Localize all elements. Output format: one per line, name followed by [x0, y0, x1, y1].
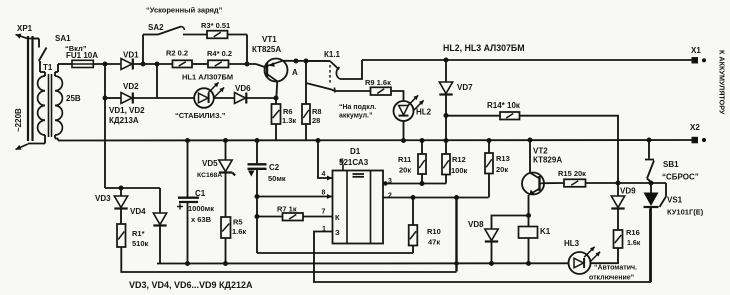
- diode VD3: [120, 188, 122, 196]
- svg-text:R2 0.2: R2 0.2: [166, 49, 188, 58]
- LED HL2: [394, 101, 414, 121]
- transformer T1 core: [48, 74, 50, 137]
- relay contact K1.1 upper blade: [306, 60, 330, 62]
- wire HL1 branch vertical: [156, 64, 158, 98]
- wire X2 bus: [58, 139, 693, 142]
- svg-text:20к: 20к: [399, 166, 411, 175]
- diode VD4: [159, 188, 161, 213]
- junction VD2 branch: [103, 96, 107, 100]
- wire VD8 branch: [492, 216, 529, 230]
- thyristor VS1: [650, 183, 652, 193]
- svg-text:100к: 100к: [451, 166, 468, 175]
- svg-text:“СТАБИЛИЗ.”: “СТАБИЛИЗ.”: [175, 111, 226, 120]
- resistor R15: [544, 182, 564, 184]
- wire primary return to plug: [28, 143, 45, 145]
- junction VD9 top: [616, 181, 620, 185]
- svg-text:R4* 0.2: R4* 0.2: [207, 49, 232, 58]
- diode VD8: [485, 229, 498, 241]
- wire VT1 collector down: [276, 81, 277, 98]
- resistor R2: [173, 60, 193, 67]
- capacitor C2: [256, 141, 258, 165]
- junction R5 bottom: [224, 262, 228, 266]
- IC D1 pin8 wire: [257, 196, 333, 198]
- wire to VD3 VD4: [105, 187, 160, 189]
- svg-text:~220В: ~220В: [14, 108, 23, 132]
- junction VD7 bottom bus: [444, 139, 448, 143]
- junction C2 top: [255, 139, 259, 143]
- fuse FU1: [72, 60, 93, 67]
- svg-text:З: З: [335, 228, 340, 237]
- relay coil K1: [519, 227, 538, 239]
- IC D1 body: [333, 171, 384, 244]
- svg-text:“Ускоренный заряд”: “Ускоренный заряд”: [146, 6, 223, 15]
- junction output column top: [455, 196, 459, 200]
- svg-text:VD1: VD1: [123, 51, 139, 60]
- junction R11 bottom: [420, 182, 424, 186]
- svg-text:R14* 10к: R14* 10к: [487, 101, 521, 110]
- svg-text:VD1, VD2: VD1, VD2: [109, 106, 145, 115]
- junction VT1 collector / R6 top: [274, 96, 278, 100]
- switch SA1: [33, 38, 40, 40]
- svg-text:х 63В: х 63В: [191, 215, 212, 224]
- junction fuse output: [103, 62, 107, 66]
- svg-text:R16: R16: [626, 228, 640, 237]
- transformer T1 secondary winding: [55, 76, 62, 91]
- svg-text:4: 4: [322, 171, 326, 178]
- svg-text:VS1: VS1: [667, 196, 683, 205]
- svg-text:1.6к: 1.6к: [232, 227, 246, 236]
- junction pin4 bus: [316, 139, 320, 143]
- resistor R5: [221, 217, 231, 238]
- svg-text:7: 7: [322, 209, 326, 216]
- switch SA2: [142, 35, 144, 65]
- transformer T1 primary winding: [44, 72, 46, 76]
- junction output column bottom: [455, 262, 459, 266]
- resistor R3: [183, 34, 207, 36]
- svg-text:28: 28: [312, 116, 320, 125]
- resistor R10: [412, 198, 414, 226]
- wire R7 node to R10: [257, 252, 413, 254]
- junction HL1 branch: [155, 62, 159, 66]
- resistor R4: [208, 60, 229, 67]
- svg-text:К: К: [335, 213, 340, 222]
- junction VD8 bottom: [490, 261, 494, 265]
- wire VD2 to HL1: [105, 97, 121, 99]
- diode VD9: [617, 183, 619, 196]
- svg-text:8: 8: [322, 190, 326, 197]
- svg-text:А: А: [292, 68, 298, 77]
- svg-text:R12: R12: [452, 155, 466, 164]
- wire VT2 emitter: [528, 195, 530, 227]
- junction R13 top: [487, 139, 491, 143]
- IC D1 pin5 stub: [342, 165, 344, 171]
- resistor R13: [488, 141, 490, 154]
- resistor R9: [334, 90, 371, 92]
- svg-text:2: 2: [388, 193, 392, 200]
- svg-text:R3* 0.51: R3* 0.51: [201, 21, 230, 30]
- wire gate row: [618, 182, 666, 184]
- svg-text:X1: X1: [691, 46, 701, 55]
- svg-text:VD4: VD4: [130, 207, 146, 216]
- wire comparator output column: [455, 198, 457, 272]
- svg-text:R13: R13: [496, 154, 510, 163]
- svg-text:HL2, HL3 АЛ307БМ: HL2, HL3 АЛ307БМ: [443, 43, 525, 53]
- svg-text:1.3к: 1.3к: [282, 116, 296, 125]
- wire HL2 to bus: [403, 121, 405, 141]
- wire K1.1 upper throw to X1 line: [340, 60, 362, 79]
- junction VT2 collector bus: [528, 138, 532, 142]
- resistor R16: [614, 230, 623, 248]
- svg-text:R1*: R1*: [132, 229, 145, 238]
- svg-text:Т1: Т1: [43, 63, 53, 72]
- relay contact K1.1 lower blade: [306, 83, 332, 90]
- svg-text:20к: 20к: [496, 165, 508, 174]
- diode VD2: [121, 93, 132, 104]
- junction R11 top: [420, 139, 424, 143]
- svg-text:50мк: 50мк: [268, 174, 286, 183]
- resistor R7: [283, 213, 304, 221]
- svg-text:D1: D1: [350, 147, 361, 156]
- svg-text:VD3, VD4, VD6...VD9 КД212А: VD3, VD4, VD6...VD9 КД212А: [129, 280, 253, 290]
- junction VD7 top: [444, 58, 448, 62]
- wire fuse to VD1: [93, 63, 121, 65]
- svg-text:R9 1.6к: R9 1.6к: [365, 78, 391, 87]
- wire HL1 to VD6: [214, 97, 235, 99]
- terminal X2: [692, 137, 698, 143]
- wire top secondary to fuse: [58, 63, 72, 65]
- svg-text:5: 5: [340, 159, 344, 166]
- svg-text:47к: 47к: [428, 238, 440, 247]
- terminal X1: [692, 58, 698, 64]
- svg-text:VD2: VD2: [123, 82, 139, 91]
- svg-text:К1.1: К1.1: [324, 50, 341, 59]
- junction HL2 bus: [402, 139, 406, 143]
- diode VD1: [121, 59, 132, 70]
- resistor R12: [445, 141, 447, 155]
- svg-text:VD3: VD3: [95, 194, 111, 203]
- svg-text:КС168А: КС168А: [197, 172, 222, 179]
- junction VD8 branch: [527, 214, 531, 218]
- IC D1 pin2 wire: [383, 197, 489, 199]
- wire R4 to VT1 base: [229, 63, 257, 65]
- svg-text:SA1: SA1: [55, 34, 71, 43]
- svg-text:R8: R8: [312, 107, 322, 116]
- svg-text:SA2: SA2: [148, 23, 164, 32]
- wire HL3 left: [568, 262, 570, 264]
- svg-text:R10: R10: [427, 227, 441, 236]
- wire VT1 emitter to node A: [284, 60, 331, 62]
- junction K1 bottom: [527, 261, 531, 265]
- button SB1: [648, 140, 650, 159]
- junction R10 top: [411, 196, 415, 200]
- wire VD1 to R2: [134, 63, 173, 65]
- svg-text:HL1 АЛ307БМ: HL1 АЛ307БМ: [182, 73, 233, 82]
- relay contact K1.1 fixed hook: [336, 67, 340, 79]
- svg-text:К АККУМУЛЯТОРУ: К АККУМУЛЯТОРУ: [718, 50, 727, 115]
- svg-text:R11: R11: [398, 155, 411, 164]
- diode VD7: [445, 60, 447, 82]
- svg-text:“Автоматич.: “Автоматич.: [594, 265, 637, 272]
- junction node A: [294, 59, 298, 63]
- svg-text:отключение”: отключение”: [589, 275, 634, 282]
- svg-text:аккумул.”: аккумул.”: [339, 113, 372, 120]
- svg-text:VT2: VT2: [533, 147, 548, 156]
- wire R2 to R4: [192, 63, 208, 65]
- wire rectifier column x105: [104, 64, 106, 188]
- svg-text:FU1 10А: FU1 10А: [66, 51, 98, 60]
- resistor R14: [446, 115, 500, 117]
- junction C1 top: [186, 139, 190, 143]
- svg-text:X2: X2: [690, 123, 700, 132]
- IC D1 pin3 wire: [383, 183, 446, 185]
- svg-text:R5: R5: [233, 218, 243, 227]
- wire bottom bus: [157, 262, 569, 264]
- wire R3 branch right down: [246, 35, 248, 65]
- transistor VT2: [522, 173, 544, 195]
- svg-text:K1: K1: [540, 227, 551, 236]
- resistor R1: [117, 224, 126, 247]
- svg-text:R6: R6: [283, 107, 293, 116]
- svg-text:VD5: VD5: [202, 159, 218, 168]
- relay contact K1.1 mech link: [329, 65, 331, 83]
- resistor R11: [421, 141, 423, 155]
- svg-text:1000мк: 1000мк: [188, 204, 214, 213]
- svg-text:КУ101Г(Е): КУ101Г(Е): [667, 208, 704, 217]
- connector XP1 plug bars: [27, 36, 29, 141]
- junction SA2 branch right: [245, 62, 249, 66]
- capacitor C1: [187, 141, 189, 198]
- wire R7 row to IC: [257, 216, 283, 218]
- IC D1 pin1 wire: [314, 209, 650, 283]
- svg-text:R15 20к: R15 20к: [558, 169, 586, 178]
- svg-text:С2: С2: [269, 163, 280, 172]
- svg-text:SB1: SB1: [663, 160, 679, 169]
- svg-text:VD7: VD7: [457, 83, 473, 92]
- junction R7 branch: [255, 215, 259, 219]
- junction SA2 branch left: [141, 62, 145, 66]
- svg-text:VD9: VD9: [620, 187, 636, 196]
- transistor VT1: [265, 59, 288, 82]
- svg-text:510к: 510к: [132, 239, 149, 248]
- LED HL1: [194, 88, 214, 108]
- svg-text:“СБРОС”: “СБРОС”: [662, 173, 699, 182]
- zener VD5: [225, 141, 227, 161]
- svg-text:1.6к: 1.6к: [627, 240, 641, 247]
- svg-text:VT1: VT1: [262, 35, 277, 44]
- IC D1 pin4 wire: [318, 141, 333, 179]
- wire VD6 to R6 node: [247, 97, 276, 99]
- svg-text:HL3: HL3: [564, 239, 580, 248]
- LED HL3: [569, 252, 591, 274]
- resistor R8: [305, 61, 307, 104]
- svg-text:VD8: VD8: [468, 220, 484, 229]
- svg-text:КТ829А: КТ829А: [533, 156, 562, 165]
- svg-text:ХР1: ХР1: [17, 24, 33, 33]
- junction VD3 top: [119, 186, 123, 190]
- junction C1 bottom: [186, 262, 190, 266]
- svg-text:КТ825А: КТ825А: [252, 45, 281, 54]
- svg-text:“На подкл.: “На подкл.: [339, 104, 376, 111]
- resistor R6: [275, 98, 277, 104]
- junction VD5 top: [224, 139, 228, 143]
- svg-text:25В: 25В: [66, 94, 81, 103]
- connector XP1 top pin arrow: [28, 38, 39, 40]
- junction R8 top branch: [304, 59, 308, 63]
- connector XP1 bottom pin arrow: [16, 144, 29, 150]
- wire VT2 collector: [529, 140, 531, 173]
- wire X1 line: [362, 59, 693, 61]
- junction R14 branch: [444, 114, 448, 118]
- junction SB1 top: [647, 138, 651, 142]
- svg-text:VD6: VD6: [235, 84, 251, 93]
- svg-text:КД213А: КД213А: [109, 116, 139, 125]
- junction pin8 branch: [255, 195, 259, 199]
- svg-text:HL2: HL2: [416, 108, 432, 117]
- junction VS1 anode: [649, 181, 653, 185]
- diode VD6: [235, 93, 246, 104]
